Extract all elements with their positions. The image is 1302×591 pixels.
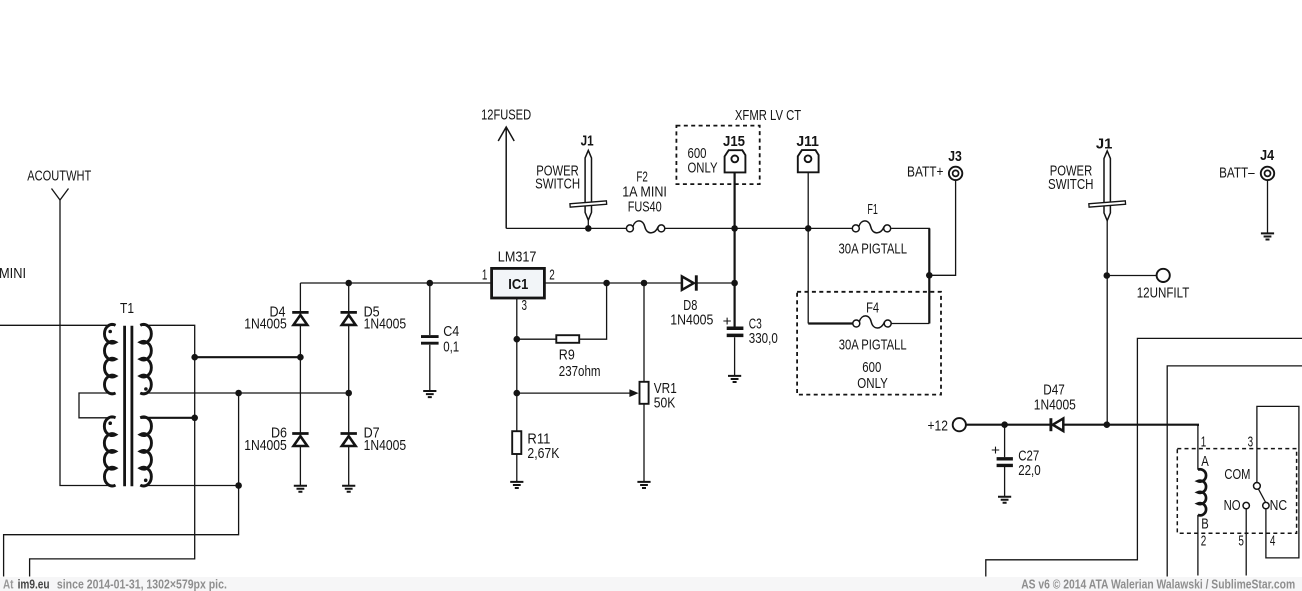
svg-text:T1: T1 xyxy=(120,300,134,317)
relay contact NO xyxy=(1243,502,1249,508)
wire F4 branch right xyxy=(891,323,929,325)
transformer T1 core xyxy=(125,326,132,487)
junction D5 D7 node xyxy=(345,390,352,397)
diode D7 xyxy=(341,434,357,447)
wire external loop A xyxy=(986,338,1302,576)
wire F4 branch left thick xyxy=(808,322,853,324)
junction J11 main rail xyxy=(805,225,812,232)
svg-text:ACOUTWHT: ACOUTWHT xyxy=(27,167,91,184)
svg-text:NC: NC xyxy=(1270,497,1288,514)
wire MINI input to T1 primary top xyxy=(0,324,116,326)
transformer T1 primary bottom winding xyxy=(104,417,115,486)
connector J11 spade xyxy=(798,150,819,172)
junction VR1 output rail xyxy=(641,280,648,287)
wire J1 right column xyxy=(1106,221,1108,425)
svg-text:1N4005: 1N4005 xyxy=(244,437,286,454)
svg-text:330,0: 330,0 xyxy=(749,330,778,347)
wire J1 stub left xyxy=(587,220,589,228)
svg-text:+: + xyxy=(991,441,1000,457)
junction J1 right D47 xyxy=(1104,421,1111,428)
op-amp regulator IC1 body xyxy=(492,268,545,298)
ground VR1 xyxy=(637,482,650,488)
svg-text:3: 3 xyxy=(1248,434,1254,451)
wire thick battery branch xyxy=(928,228,930,323)
wire C4 column xyxy=(429,283,431,391)
wire D8 cathode to C3 node xyxy=(696,282,734,284)
svg-text:MINI: MINI xyxy=(0,265,26,282)
wire R9 loop xyxy=(517,283,607,339)
svg-text:J3: J3 xyxy=(948,148,962,165)
phase dot T1 secondary top xyxy=(144,387,148,391)
ground C3 xyxy=(728,376,741,382)
capacitor C4 plates xyxy=(421,337,439,344)
svg-text:F1: F1 xyxy=(867,201,878,218)
connector J4 jack xyxy=(1261,167,1274,180)
potentiometer VR1 xyxy=(640,382,649,404)
wire IC1 output rail xyxy=(544,282,682,284)
relay coil K1 xyxy=(1198,469,1206,515)
svg-text:BATT+: BATT+ xyxy=(907,164,944,181)
transformer T1 primary top winding xyxy=(104,324,115,393)
fuse F4 xyxy=(853,316,891,328)
capacitor C27 plates xyxy=(997,459,1013,466)
arrowhead VR1 wiper xyxy=(629,389,638,397)
junction D5 top rail xyxy=(345,280,352,287)
relay contact COM xyxy=(1254,483,1261,490)
diode D5 xyxy=(341,312,357,325)
svg-text:J11: J11 xyxy=(796,133,819,150)
wire to J3 jack xyxy=(929,180,955,275)
junction C27 xyxy=(1001,421,1008,428)
wire node secondary to D4 xyxy=(195,356,301,358)
wire DC rail to IC1 input xyxy=(300,282,491,284)
dashed box 600 ONLY J15 xyxy=(676,126,759,185)
wire secondary top to tap column xyxy=(30,325,195,576)
ground D6 xyxy=(294,486,307,492)
svg-text:+12: +12 xyxy=(928,418,949,435)
wire VR1 column xyxy=(643,283,645,481)
svg-text:SWITCH: SWITCH xyxy=(535,176,580,193)
footer bar xyxy=(0,577,1302,591)
svg-text:LM317: LM317 xyxy=(498,248,537,265)
svg-text:R9: R9 xyxy=(559,346,575,363)
svg-text:12FUSED: 12FUSED xyxy=(481,107,531,124)
svg-text:AS v6 © 2014 ATA Walerian Wala: AS v6 © 2014 ATA Walerian Walawski / Sub… xyxy=(1021,577,1295,591)
connector J15 spade xyxy=(725,150,746,172)
connector ACOUTWHT antenna xyxy=(52,189,69,201)
svg-text:1N4005: 1N4005 xyxy=(1034,397,1076,414)
svg-text:BATT–: BATT– xyxy=(1219,165,1255,182)
wire +12 feed thick xyxy=(966,425,1198,426)
switch J1 blade left xyxy=(585,150,591,220)
junction center tap column xyxy=(235,390,242,397)
wire external loop B xyxy=(1167,366,1302,577)
phase dot T1 primary bottom xyxy=(108,421,112,425)
svg-text:IC1: IC1 xyxy=(508,276,528,293)
junction D4 D6 node xyxy=(297,354,304,361)
junction pin3 R9 xyxy=(514,336,521,343)
fuse F2 xyxy=(626,221,664,233)
junction secondary tap lower xyxy=(191,415,198,422)
dashed box 600 ONLY F4 xyxy=(797,292,941,395)
switch J1 crossbar left xyxy=(570,201,607,207)
transformer T1 secondary top winding xyxy=(140,324,151,393)
wire J4 to ground xyxy=(1267,180,1269,233)
wire secondary bottom return xyxy=(4,393,239,577)
junction J15 main rail xyxy=(731,225,738,232)
ground C4 xyxy=(423,391,436,397)
wire J15 column xyxy=(733,173,735,327)
diode D6 xyxy=(292,434,308,447)
svg-text:+: + xyxy=(723,312,732,328)
capacitor C3 plates xyxy=(727,328,744,335)
wire C3 to ground xyxy=(734,337,736,375)
svg-text:2: 2 xyxy=(549,266,555,283)
wire D4 column xyxy=(299,283,301,485)
svg-text:NO: NO xyxy=(1224,497,1241,514)
wire relay pin3 loop xyxy=(1257,406,1299,558)
diode D4 xyxy=(292,312,308,325)
connector J3 jack xyxy=(949,167,962,180)
terminal +12 xyxy=(953,418,966,431)
svg-text:4: 4 xyxy=(1270,533,1276,550)
resistor R11 xyxy=(512,431,521,454)
ground R11 xyxy=(510,482,523,488)
ground C27 xyxy=(998,497,1011,503)
svg-text:1: 1 xyxy=(482,266,488,283)
svg-text:50K: 50K xyxy=(654,395,676,412)
svg-text:12UNFILT: 12UNFILT xyxy=(1137,284,1190,301)
wire relay coil column xyxy=(1197,425,1199,576)
wire secondary bottom top terminal xyxy=(140,417,194,419)
junction C4 top xyxy=(427,280,434,287)
svg-text:J1: J1 xyxy=(1096,135,1113,152)
junction R9 output rail xyxy=(603,280,610,287)
relay lever xyxy=(1258,489,1265,503)
svg-text:1N4005: 1N4005 xyxy=(364,437,407,454)
junction pin3 VR1 wiper xyxy=(514,390,521,397)
svg-text:3: 3 xyxy=(522,297,528,314)
wire IC1 pin3 column xyxy=(516,298,518,481)
svg-text:1N4005: 1N4005 xyxy=(364,316,407,333)
svg-text:J1: J1 xyxy=(581,133,594,150)
wire relay pin5 xyxy=(1245,509,1247,576)
ground J4 xyxy=(1261,233,1274,239)
net arrow 12FUSED xyxy=(498,127,514,228)
switch J1 blade right xyxy=(1104,151,1110,221)
diode D47 xyxy=(1051,418,1063,431)
svg-text:ONLY: ONLY xyxy=(688,159,718,176)
svg-text:ONLY: ONLY xyxy=(857,375,888,392)
relay contact NC xyxy=(1263,502,1269,508)
svg-text:1N4005: 1N4005 xyxy=(244,316,286,333)
svg-text:1N4005: 1N4005 xyxy=(670,312,713,329)
svg-text:30A PIGTALL: 30A PIGTALL xyxy=(839,336,907,353)
wire center tap to D5 xyxy=(140,392,348,394)
svg-text:At: At xyxy=(3,577,14,591)
junction D8 C3 J15 xyxy=(731,280,738,287)
wire D5 column xyxy=(348,283,350,485)
wire main switched rail xyxy=(506,228,929,323)
ground D7 xyxy=(342,486,355,492)
junction battery branch xyxy=(926,272,933,279)
junction J1 rail left xyxy=(585,225,592,232)
fuse F1 xyxy=(852,221,890,233)
svg-text:22,0: 22,0 xyxy=(1018,462,1040,479)
wire J11 column xyxy=(807,172,809,323)
switch J1 crossbar right xyxy=(1089,201,1126,207)
phase dot T1 secondary bottom xyxy=(144,479,148,483)
svg-text:2: 2 xyxy=(1201,533,1207,550)
svg-text:SWITCH: SWITCH xyxy=(1048,176,1094,193)
svg-text:COM: COM xyxy=(1224,466,1250,483)
svg-text:B: B xyxy=(1201,515,1209,532)
svg-text:0,1: 0,1 xyxy=(443,339,459,356)
svg-text:30A PIGTALL: 30A PIGTALL xyxy=(839,241,908,258)
phase dot T1 primary top xyxy=(108,330,112,334)
junction secondary bottom xyxy=(235,482,242,489)
resistor R9 xyxy=(556,335,579,343)
wire ACOUTWHT down left side xyxy=(60,200,116,486)
svg-text:XFMR LV CT: XFMR LV CT xyxy=(735,107,801,124)
svg-text:im9.eu: im9.eu xyxy=(18,577,50,591)
svg-text:A: A xyxy=(1201,453,1209,470)
diode D8 xyxy=(682,275,696,290)
svg-text:FUS40: FUS40 xyxy=(628,198,662,215)
svg-text:237ohm: 237ohm xyxy=(559,363,601,380)
transformer T1 secondary bottom winding xyxy=(140,417,151,486)
wire C27 column xyxy=(1004,425,1006,497)
dashed box relay xyxy=(1177,449,1296,534)
svg-text:5: 5 xyxy=(1238,533,1244,550)
svg-text:C4: C4 xyxy=(443,323,459,340)
junction secondary tap upper xyxy=(191,354,198,361)
junction 12UNFILT xyxy=(1104,272,1111,279)
svg-text:1: 1 xyxy=(1201,434,1207,451)
terminal 12UNFILT xyxy=(1157,269,1170,282)
svg-text:600: 600 xyxy=(862,359,881,376)
svg-text:since 2014-01-31, 1302×579px p: since 2014-01-31, 1302×579px pic. xyxy=(57,577,227,591)
svg-text:J15: J15 xyxy=(723,133,745,150)
wire VR1 wiper arrow xyxy=(517,392,630,394)
svg-text:F4: F4 xyxy=(866,300,879,317)
wire to 12UNFILT terminal xyxy=(1107,275,1157,277)
svg-text:2,67K: 2,67K xyxy=(527,445,559,462)
wire T1 primary series jog xyxy=(79,393,116,418)
svg-text:J4: J4 xyxy=(1260,147,1275,164)
